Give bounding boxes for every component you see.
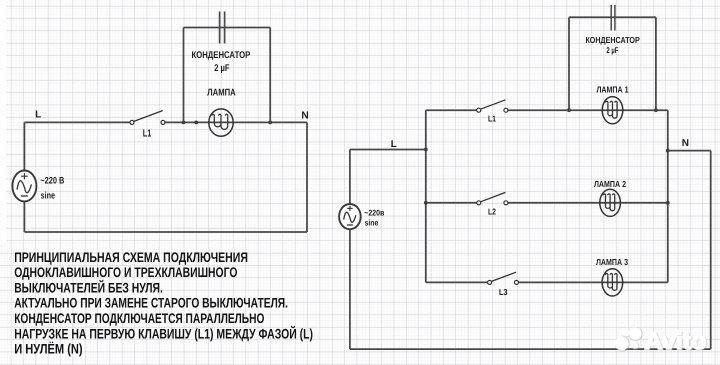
wire: row 1 right segment xyxy=(508,109,668,111)
wire: row 2 left segment xyxy=(426,202,477,204)
svg-text:КОНДЕНСАТОР ПОДКЛЮЧАЕТСЯ ПАРАЛ: КОНДЕНСАТОР ПОДКЛЮЧАЕТСЯ ПАРАЛЛЕЛЬНО xyxy=(14,310,264,326)
switch L1 (right circuit) xyxy=(477,100,508,112)
junction: lamp left lead xyxy=(194,121,198,125)
capacitor C1 2uF (left circuit) plates xyxy=(220,12,225,44)
svg-text:КОНДЕНСАТОР: КОНДЕНСАТОР xyxy=(192,50,251,61)
svg-text:L: L xyxy=(35,110,41,121)
wire: L feed from source to trunk xyxy=(350,149,426,151)
svg-text:L1: L1 xyxy=(488,114,496,124)
svg-text:ЛАМПА: ЛАМПА xyxy=(207,88,235,99)
junction: row 2 on right trunk xyxy=(666,201,670,205)
wire: right trunk vertical xyxy=(667,110,669,282)
junction: box left leg on row 1 xyxy=(567,108,571,112)
svg-text:КОНДЕНСАТОР: КОНДЕНСАТОР xyxy=(585,35,639,45)
wire: left circuit left side lower xyxy=(23,201,25,232)
svg-text:N: N xyxy=(301,110,308,121)
wire: left circuit left side upper xyxy=(23,122,25,170)
svg-text:И НУЛЁМ (N): И НУЛЁМ (N) xyxy=(14,341,82,357)
wire: capacitor box left leg xyxy=(183,28,185,123)
wire: left circuit top rail, lamp side xyxy=(165,121,307,123)
lamp EL2 ЛАМПА 1 (row 1) xyxy=(602,97,623,124)
svg-text:~220 В: ~220 В xyxy=(40,176,64,187)
junction: box right leg on row 1 xyxy=(654,108,658,112)
wire: capacitor box top (right circuit) xyxy=(569,16,656,18)
switch L1 (left circuit, one-gang) xyxy=(130,111,165,125)
wire: left trunk vertical xyxy=(425,110,427,282)
svg-text:2 µF: 2 µF xyxy=(214,63,229,74)
wire: source top lead (right) xyxy=(349,150,351,205)
svg-text:2 µF: 2 µF xyxy=(606,45,618,55)
wire: outer right vertical to bottom xyxy=(710,151,712,350)
wire: right circuit bottom rail xyxy=(350,348,711,350)
svg-text:ЛАМПА 3: ЛАМПА 3 xyxy=(596,257,628,267)
wire: row 2 right segment xyxy=(508,202,668,204)
wire: row 1 left segment xyxy=(426,109,477,111)
white margin strip at far left xyxy=(0,0,7,243)
junction: box right leg on top rail xyxy=(268,121,272,125)
wire: capacitor box left leg (right circuit) xyxy=(568,17,570,110)
svg-text:~220в: ~220в xyxy=(364,207,384,217)
AC source G2 ~220V (right circuit) xyxy=(339,204,361,229)
svg-text:sine: sine xyxy=(365,217,379,227)
wire: row 3 left segment xyxy=(426,281,488,283)
wire: capacitor box right leg (right circuit) xyxy=(655,17,657,110)
svg-text:ВЫКЛЮЧАТЕЛЕЙ БЕЗ НУЛЯ.: ВЫКЛЮЧАТЕЛЕЙ БЕЗ НУЛЯ. xyxy=(14,279,163,295)
svg-text:НАГРУЗКЕ НА ПЕРВУЮ КЛАВИШУ (L1: НАГРУЗКЕ НА ПЕРВУЮ КЛАВИШУ (L1) МЕЖДУ ФА… xyxy=(14,325,313,341)
switch L2 (right circuit) xyxy=(477,192,508,204)
junction: row 2 on left trunk xyxy=(424,201,428,205)
lamp EL4 ЛАМПА 3 (row 3) xyxy=(602,269,623,296)
junction: box left leg on top rail xyxy=(182,121,186,125)
AC source G1 ~220V (left circuit) xyxy=(12,171,36,202)
svg-text:sine: sine xyxy=(41,191,55,202)
svg-text:L: L xyxy=(391,139,397,150)
watermark: Avito logo bubbles xyxy=(615,327,642,350)
junction: L feed on left trunk xyxy=(424,148,428,152)
wire: left circuit right side down xyxy=(306,122,308,232)
watermark: Avito wordmark xyxy=(644,328,707,355)
svg-text:ЛАМПА 1: ЛАМПА 1 xyxy=(596,84,628,94)
junction: N branch on right trunk xyxy=(666,149,670,153)
wire: source bottom lead down (right) xyxy=(349,229,351,349)
svg-text:Avito: Avito xyxy=(644,328,706,354)
wire: left circuit bottom rail xyxy=(24,231,307,233)
lamp EL3 ЛАМПА 2 (row 2) xyxy=(600,189,621,216)
svg-text:L1: L1 xyxy=(143,128,152,139)
wire: left circuit top rail, L side xyxy=(24,121,130,123)
wire: N branch horizontal xyxy=(668,150,711,152)
switch L3 (right circuit) xyxy=(488,272,519,284)
capacitor C2 2uF (right circuit) plates xyxy=(611,5,615,31)
svg-text:N: N xyxy=(682,138,689,149)
svg-text:L2: L2 xyxy=(488,206,496,216)
svg-text:ОДНОКЛАВИШНОГО И ТРЕХКЛАВИШНОГ: ОДНОКЛАВИШНОГО И ТРЕХКЛАВИШНОГО xyxy=(14,264,237,280)
svg-text:ПРИНЦИПИАЛЬНАЯ СХЕМА ПОДКЛЮЧЕН: ПРИНЦИПИАЛЬНАЯ СХЕМА ПОДКЛЮЧЕНИЯ xyxy=(14,249,248,265)
description text block xyxy=(14,249,313,357)
watermark: Avito logo bubbles shadow xyxy=(616,328,643,351)
wire: capacitor box top xyxy=(184,27,271,29)
svg-text:L3: L3 xyxy=(499,287,508,297)
lamp EL1 (left circuit) xyxy=(209,109,233,136)
wire: capacitor box right leg xyxy=(269,28,271,123)
svg-text:ЛАМПА 2: ЛАМПА 2 xyxy=(594,179,626,189)
wire: row 3 right segment xyxy=(519,281,668,283)
svg-text:АКТУАЛЬНО ПРИ ЗАМЕНЕ СТАРОГО В: АКТУАЛЬНО ПРИ ЗАМЕНЕ СТАРОГО ВЫКЛЮЧАТЕЛЯ… xyxy=(14,295,288,311)
